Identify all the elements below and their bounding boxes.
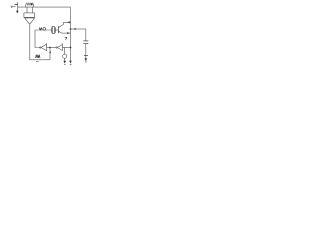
resistor R1: [26, 3, 34, 7]
wire stub right input: [32, 7, 34, 13]
ground right: [84, 55, 88, 62]
resistor R2 label: [36, 55, 41, 59]
arrow on emitter: [67, 32, 70, 34]
wire collector path: [64, 22, 71, 24]
capacitor C1: [83, 29, 88, 56]
wire U2-U3 link: [47, 47, 57, 49]
comparator U1 box: [24, 13, 35, 17]
inverter U2: [40, 43, 47, 51]
wire below meter: [64, 58, 66, 60]
crystal X1: [51, 27, 55, 34]
wire drop to meter: [64, 48, 66, 55]
label pin 7: [65, 37, 67, 40]
arrow on output wire: [75, 28, 77, 30]
node B: [49, 47, 51, 49]
ground mid: [69, 61, 72, 65]
wire right vertical of bottom loop: [49, 48, 51, 60]
node B2: [49, 51, 51, 53]
node C: [70, 47, 72, 49]
wire base lead: [55, 29, 58, 31]
node Vin label: [11, 6, 16, 8]
wire to output branch: [71, 28, 86, 30]
transistor Q1: [58, 24, 63, 33]
wire U2 output to feedback: [35, 30, 51, 48]
node A: [31, 3, 33, 5]
wire bottom horizontal: [35, 59, 50, 61]
op-amp U1: [25, 17, 35, 24]
node D: [70, 28, 72, 30]
wire right vertical top: [70, 7, 72, 47]
crystal X1 label: [39, 28, 45, 31]
wire mid vertical lower: [70, 48, 72, 61]
wire stub left input: [26, 7, 28, 13]
meter M1: [63, 54, 67, 58]
label under bottom wire: [36, 60, 39, 62]
wire U3 input: [62, 47, 70, 49]
ground meter: [63, 61, 66, 65]
wire emitter path: [62, 32, 71, 34]
wire left vertical from U1 output: [30, 24, 35, 60]
wire top horizontal: [18, 6, 71, 8]
inverter U3: [56, 43, 62, 50]
input source V1: [15, 2, 19, 13]
arrow on collector wire: [67, 21, 70, 23]
